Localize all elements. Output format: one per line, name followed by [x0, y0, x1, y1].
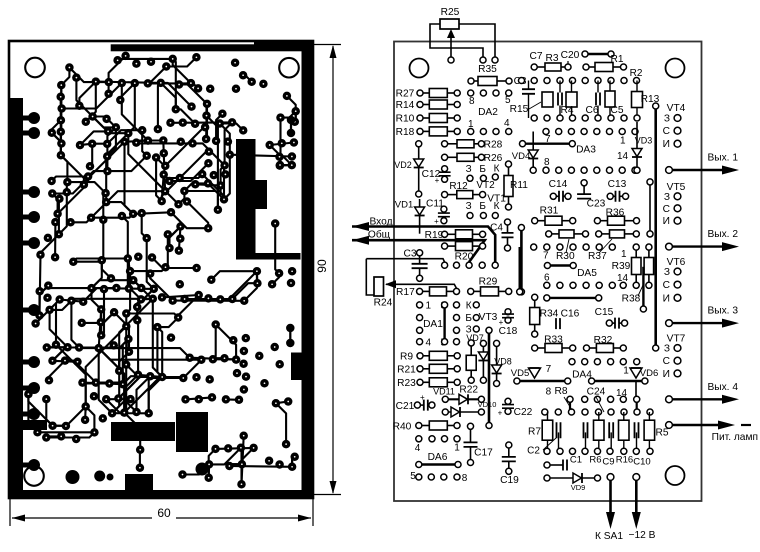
pad — [56, 93, 64, 102]
pad — [120, 138, 129, 147]
wire — [242, 448, 254, 464]
mounting hole — [410, 59, 429, 78]
pad — [48, 189, 57, 198]
wire — [205, 104, 208, 139]
svg-text:4: 4 — [426, 338, 432, 349]
wCdb — [636, 432, 638, 451]
wire — [138, 375, 162, 377]
svg-text:DA1: DA1 — [423, 319, 443, 330]
pad — [79, 297, 88, 306]
resistor R27 — [417, 89, 460, 98]
wire — [128, 259, 141, 300]
capacitor Ca — [557, 422, 561, 438]
wire — [47, 346, 68, 348]
svg-text:R16: R16 — [616, 454, 633, 465]
pad — [112, 123, 121, 131]
pad — [205, 147, 214, 156]
wire — [83, 288, 116, 302]
svg-text:VD10: VD10 — [478, 400, 497, 409]
wire — [158, 83, 192, 129]
leader R15 — [529, 102, 541, 109]
rail pad — [28, 211, 40, 223]
wire — [209, 448, 241, 465]
svg-text:60: 60 — [157, 506, 171, 520]
pad — [188, 139, 197, 148]
pad — [211, 445, 220, 454]
pad — [102, 115, 111, 124]
wire — [71, 299, 152, 371]
svg-text:R17: R17 — [396, 287, 415, 298]
pad — [232, 355, 241, 364]
diode VD1 — [415, 199, 425, 234]
wire — [179, 191, 185, 204]
wire — [60, 120, 62, 155]
wire DA5 bus1 — [547, 264, 573, 266]
svg-text:C6: C6 — [585, 105, 598, 116]
resistor R16 — [619, 420, 630, 440]
pad — [239, 126, 248, 135]
svg-text:R22: R22 — [459, 385, 478, 396]
wire VT3 bus — [488, 330, 491, 425]
pad — [55, 230, 64, 239]
pad — [57, 432, 65, 441]
svg-text:C5: C5 — [610, 105, 623, 116]
pad — [161, 162, 170, 171]
pad — [288, 152, 297, 161]
svg-text:4: 4 — [504, 118, 510, 129]
pad — [148, 253, 157, 262]
wire — [91, 191, 165, 218]
pad — [157, 79, 166, 88]
output lamp power — [666, 421, 758, 444]
pad — [42, 433, 51, 442]
wire — [156, 158, 162, 202]
wire — [119, 352, 129, 371]
svg-text:DA3: DA3 — [576, 145, 596, 156]
pad — [179, 374, 188, 383]
transistor VT4 — [663, 103, 686, 150]
svg-text:C4: C4 — [490, 223, 503, 234]
pad — [204, 473, 213, 482]
wire top bus — [585, 53, 611, 55]
pad — [226, 150, 235, 159]
svg-text:C13: C13 — [608, 179, 627, 190]
diode VD10 — [442, 407, 484, 417]
svg-text:VT4: VT4 — [667, 103, 686, 114]
wire — [23, 386, 34, 391]
svg-text:C2: C2 — [527, 446, 540, 457]
pad — [206, 84, 215, 93]
input net Вход — [352, 217, 495, 263]
copper band right of bar — [236, 253, 301, 260]
copper block bottom center 2 — [176, 412, 208, 452]
svg-text:К SA1: К SA1 — [595, 531, 623, 542]
pad — [275, 460, 284, 469]
pad — [87, 213, 96, 222]
transistor VT6 — [663, 257, 686, 304]
wire long bus right — [654, 106, 657, 348]
pad — [197, 355, 206, 364]
svg-text:DA5: DA5 — [577, 268, 597, 279]
pad — [53, 209, 62, 218]
pad — [222, 395, 231, 404]
wire — [23, 360, 34, 365]
wire — [171, 212, 208, 228]
wire — [50, 310, 68, 347]
pad — [224, 444, 233, 453]
wire — [193, 143, 225, 165]
pad — [97, 305, 106, 314]
pad — [98, 256, 107, 265]
dimension label 60 — [152, 506, 176, 519]
wire — [294, 111, 297, 122]
resistor R19 — [442, 230, 486, 239]
svg-text:R37: R37 — [588, 251, 607, 262]
wire — [179, 85, 207, 104]
copper bar center-right — [236, 139, 256, 255]
wire — [102, 260, 111, 278]
pad — [290, 138, 299, 147]
mounting hole — [25, 58, 45, 78]
pad — [100, 285, 109, 294]
pad — [142, 151, 151, 160]
wire — [213, 358, 236, 360]
wire — [280, 164, 292, 167]
pad — [271, 219, 280, 228]
svg-text:Вых. 4: Вых. 4 — [707, 382, 738, 393]
pad — [165, 177, 174, 186]
board outline frame — [9, 41, 313, 498]
svg-text:R35: R35 — [478, 64, 497, 75]
IC DA1 — [417, 301, 460, 349]
pad — [51, 218, 60, 227]
resistor R15 — [542, 92, 553, 107]
wire — [205, 104, 208, 116]
mounting hole — [279, 58, 299, 78]
pad — [239, 71, 248, 80]
pad — [235, 396, 244, 405]
net -12V — [629, 474, 656, 541]
svg-text:R27: R27 — [396, 89, 415, 100]
pad — [240, 347, 249, 356]
rail pad — [28, 356, 40, 368]
wire — [272, 273, 279, 284]
wire — [184, 191, 224, 199]
svg-text:Вых. 1: Вых. 1 — [707, 153, 738, 164]
pad — [78, 319, 87, 328]
wire — [123, 376, 150, 384]
resistor R30 — [546, 230, 589, 238]
resistor R29 — [468, 287, 512, 296]
wire — [90, 144, 92, 167]
resistor R6 — [594, 420, 605, 440]
transistor VT1 pads — [466, 201, 500, 219]
output Vyh1 — [666, 153, 739, 175]
wire C8 — [528, 81, 530, 90]
wire — [287, 96, 296, 111]
pad — [72, 435, 81, 444]
wire — [170, 163, 209, 181]
wire — [178, 295, 199, 318]
wire — [185, 298, 233, 300]
wire — [230, 155, 292, 157]
svg-text:З: З — [466, 201, 472, 212]
wR5b — [648, 440, 650, 451]
pad — [125, 284, 134, 293]
IC DA2 — [468, 90, 512, 135]
wire — [107, 127, 116, 171]
wire — [130, 267, 165, 271]
svg-text:C20: C20 — [561, 50, 580, 61]
wire — [216, 448, 254, 449]
wR16t — [623, 412, 625, 420]
pad — [270, 343, 279, 352]
svg-text:С: С — [663, 204, 670, 215]
capacitor C18 — [499, 309, 514, 327]
wire — [61, 68, 69, 86]
pad — [55, 295, 64, 304]
resistor R1 — [583, 63, 627, 72]
pad — [97, 331, 106, 340]
wire — [116, 287, 128, 290]
wire — [173, 300, 245, 302]
wire — [180, 152, 209, 178]
resistor R26 — [442, 153, 485, 161]
rail pad — [28, 112, 40, 124]
svg-text:З: З — [664, 344, 670, 355]
pad — [259, 80, 268, 89]
pad — [268, 280, 277, 289]
capacitor C3 — [412, 250, 428, 282]
diode VD8 — [492, 340, 502, 386]
svg-text:R18: R18 — [396, 127, 415, 138]
pad — [126, 395, 135, 404]
wire — [82, 312, 114, 323]
wire — [120, 83, 135, 100]
resistor R12 — [442, 191, 486, 199]
resistor R9 — [417, 351, 460, 360]
pad — [105, 78, 114, 87]
pad — [287, 279, 296, 288]
pad — [35, 311, 44, 320]
wire — [66, 182, 69, 192]
resistor R39b — [644, 244, 654, 288]
resistor R28 — [442, 140, 485, 148]
svg-text:И: И — [663, 293, 670, 304]
wire — [221, 186, 224, 200]
pad — [81, 402, 90, 411]
wire — [41, 234, 59, 255]
wire — [28, 394, 37, 432]
svg-text:8: 8 — [469, 96, 475, 107]
dimension arrow down — [330, 481, 337, 494]
wire — [136, 142, 192, 145]
wire — [173, 59, 191, 83]
pad — [159, 170, 168, 179]
wire — [40, 286, 49, 316]
wire — [292, 457, 295, 467]
wire — [112, 412, 149, 414]
svg-text:7: 7 — [543, 251, 549, 262]
pad — [247, 78, 256, 87]
pad — [81, 416, 90, 425]
pad — [144, 79, 153, 88]
pad — [249, 444, 258, 453]
wire left bus — [519, 247, 521, 292]
pad — [131, 79, 140, 88]
wR5t — [648, 412, 650, 420]
wire — [147, 238, 154, 289]
pad — [287, 116, 296, 125]
wire — [60, 300, 83, 302]
wire — [165, 116, 218, 210]
svg-text:R30: R30 — [556, 251, 575, 262]
wR6b — [598, 440, 600, 451]
wire — [79, 345, 114, 347]
wire — [270, 143, 294, 146]
pad — [146, 269, 155, 278]
wire — [124, 299, 162, 413]
diode VD6 — [589, 368, 648, 396]
wire — [58, 199, 61, 234]
wire — [99, 348, 125, 413]
capacitor C23 — [577, 180, 591, 199]
resistor R40 — [416, 421, 460, 430]
pad — [137, 295, 146, 304]
pad — [224, 137, 233, 146]
capacitor C15 — [606, 318, 627, 329]
svg-text:R34: R34 — [540, 309, 559, 320]
svg-text:VD5: VD5 — [511, 368, 529, 379]
pad — [61, 356, 70, 365]
svg-text:R5: R5 — [655, 428, 668, 439]
pad — [286, 324, 295, 333]
wire — [229, 464, 242, 466]
pad — [242, 334, 251, 343]
wire — [162, 295, 199, 297]
pad — [291, 107, 300, 116]
rail pad — [28, 186, 40, 198]
pad — [233, 369, 242, 378]
wire — [106, 133, 178, 204]
pad — [214, 206, 223, 215]
svg-text:R31: R31 — [540, 206, 559, 217]
svg-text:И: И — [663, 369, 670, 380]
wire — [118, 375, 138, 399]
wire C6b — [597, 106, 599, 119]
wire — [99, 309, 102, 348]
wire Cx — [559, 81, 561, 93]
wire — [60, 97, 62, 120]
wire — [100, 309, 102, 322]
wire — [23, 412, 34, 417]
pad — [216, 295, 225, 304]
wire — [213, 358, 225, 359]
wire — [136, 141, 163, 143]
wire — [139, 450, 141, 468]
pad — [142, 234, 151, 243]
svg-text:R29: R29 — [479, 277, 498, 288]
resistor R3 — [531, 63, 571, 71]
pad — [122, 360, 131, 369]
svg-text:C17: C17 — [474, 448, 493, 459]
wire — [50, 301, 72, 310]
wire — [128, 259, 130, 272]
svg-text:Б: Б — [479, 164, 486, 175]
wire — [84, 407, 87, 420]
resistor R14 — [417, 100, 460, 109]
pad — [282, 440, 291, 449]
pad — [44, 281, 53, 290]
wire — [187, 202, 208, 229]
wire — [106, 399, 124, 412]
wire — [290, 120, 292, 133]
wR7b — [547, 440, 549, 451]
pad — [84, 172, 93, 181]
wire — [61, 155, 68, 182]
wire — [133, 280, 153, 299]
pad — [204, 159, 213, 168]
pad row below bottom cluster — [544, 448, 653, 454]
pad — [255, 352, 264, 361]
wire — [96, 82, 161, 83]
pad — [136, 446, 145, 455]
svg-text:7: 7 — [546, 364, 552, 375]
pad — [114, 394, 123, 403]
pad — [48, 128, 57, 137]
wire — [164, 175, 180, 178]
svg-text:Пит. ламп: Пит. ламп — [712, 432, 758, 443]
wire pair — [649, 182, 651, 234]
svg-text:VD2: VD2 — [394, 160, 412, 170]
pad — [287, 129, 296, 138]
capacitor C19 — [502, 442, 516, 474]
wire — [229, 465, 292, 468]
svg-text:+: + — [434, 217, 439, 226]
svg-text:90: 90 — [315, 259, 329, 273]
wire — [56, 345, 94, 433]
wire — [150, 376, 183, 378]
wire — [242, 436, 244, 485]
wire — [220, 124, 230, 155]
resistor R20 — [442, 242, 486, 251]
pad — [166, 119, 175, 128]
pad — [97, 318, 106, 327]
pad — [202, 135, 211, 144]
rail pad — [28, 127, 40, 139]
resistor R32 — [583, 344, 626, 353]
pad — [149, 295, 158, 304]
wire — [46, 438, 76, 440]
capacitor C22 — [498, 398, 514, 417]
wire — [141, 298, 153, 301]
pad — [152, 153, 161, 162]
pad — [115, 367, 124, 376]
wire — [173, 59, 176, 109]
svg-text:C3: C3 — [403, 249, 416, 260]
resistor R4 — [566, 92, 577, 107]
wire — [53, 326, 127, 425]
resistor R11 — [504, 161, 513, 210]
pad — [120, 408, 129, 417]
pad — [42, 395, 51, 404]
pad — [158, 373, 167, 382]
pad — [161, 263, 170, 272]
wire — [256, 271, 259, 283]
wire — [73, 259, 128, 262]
wire — [244, 271, 257, 301]
mounting hole — [24, 466, 44, 486]
